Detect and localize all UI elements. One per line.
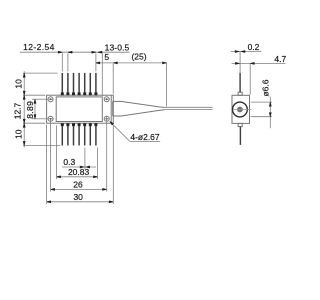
pin 7 (top row) <box>94 73 97 95</box>
left dimension line 10/12.7/10 <box>23 71 25 147</box>
pin 10 (bottom row) <box>72 123 75 145</box>
dimension 20.83 line <box>57 176 98 178</box>
side view bottom lead <box>239 127 241 145</box>
arrows left column <box>23 73 25 77</box>
extension line hole right <box>106 116 108 191</box>
dimension 4.7 line <box>232 62 286 64</box>
extension line flange left <box>46 125 48 204</box>
dimension 30 line <box>47 201 114 203</box>
extension line pin2 <box>67 53 69 71</box>
extension line flange right bottom <box>112 125 114 204</box>
pin 1 (top row) <box>61 73 64 95</box>
side view body <box>232 95 250 123</box>
mounting hole bottom-right <box>104 116 109 121</box>
dimension 26 line <box>51 188 107 190</box>
svg-text:(25): (25) <box>131 52 146 62</box>
svg-text:30: 30 <box>73 192 83 202</box>
dimension line top row <box>20 51 130 53</box>
svg-text:4-ø2.67: 4-ø2.67 <box>130 132 160 142</box>
extension line pin1 <box>61 53 63 71</box>
pin 9 (bottom row) <box>66 123 69 145</box>
extension line circle top <box>251 101 272 103</box>
extension line flange right edge <box>112 64 114 94</box>
arrows top row <box>58 51 62 53</box>
side view ferrule circle <box>233 102 248 117</box>
flange inner right edge <box>110 96 112 124</box>
extension line body right edge <box>101 53 103 96</box>
leader line <box>111 122 130 141</box>
dimension line second row <box>96 62 167 64</box>
optical fiber pigtail <box>165 107 213 109</box>
extension line fiber tip <box>166 63 168 107</box>
fiber boot cone <box>113 101 165 116</box>
pin 5 (top row) <box>83 73 86 95</box>
svg-text:4.7: 4.7 <box>274 54 286 64</box>
svg-text:5: 5 <box>104 52 109 62</box>
package body (lid, top view) <box>56 97 102 122</box>
side view top tab <box>238 92 242 95</box>
dimension 0.2 line <box>231 51 262 53</box>
svg-text:20.83: 20.83 <box>68 167 90 177</box>
svg-text:12-2.54: 12-2.54 <box>23 42 55 52</box>
svg-text:0.2: 0.2 <box>248 42 260 52</box>
extension line package right (side view) <box>249 64 251 95</box>
pin 11 (bottom row) <box>78 123 81 145</box>
svg-text:12.7: 12.7 <box>13 102 23 119</box>
pin 13 (bottom row) <box>89 123 92 145</box>
flange (butterfly package base, top view) <box>47 95 114 123</box>
extension line body left edge <box>56 125 58 179</box>
dimension 8.89 line <box>34 99 36 119</box>
svg-text:10: 10 <box>14 129 24 139</box>
pin 14 (bottom row) <box>94 123 97 145</box>
extension line circle bottom <box>251 116 272 118</box>
pin 6 (top row) <box>89 73 92 95</box>
dimension 0.3 line <box>62 166 96 168</box>
svg-text:26: 26 <box>73 179 83 189</box>
left extension line flange top <box>23 94 45 96</box>
side view ferrule center dot <box>237 107 243 113</box>
extension line pin7 <box>95 53 97 71</box>
pin 2 (top row) <box>66 73 69 95</box>
left extension line hole center top <box>32 98 48 100</box>
mounting hole bottom-left <box>48 116 53 121</box>
left extension line pin tops <box>23 72 58 74</box>
pin 8 (bottom row) <box>61 123 64 145</box>
side view centerlines <box>233 109 251 111</box>
pin 4 (top row) <box>78 73 81 95</box>
top pin row (7 leads) <box>61 73 98 95</box>
arrows second row <box>96 62 100 64</box>
svg-text:8.89: 8.89 <box>25 101 35 119</box>
leader arrowhead <box>110 121 114 125</box>
left extension line pin bottoms <box>23 145 60 147</box>
dimension Ø6.6 line <box>269 97 271 129</box>
side view top lead <box>239 52 241 93</box>
mounting hole top-left <box>48 97 53 102</box>
svg-text:0.3: 0.3 <box>63 157 75 167</box>
svg-text:ø6.6: ø6.6 <box>261 79 271 96</box>
left extension line flange bottom <box>23 122 45 124</box>
extension line pin5 bottom <box>84 148 86 170</box>
side view bottom tab <box>238 123 242 126</box>
left extension line hole center bottom <box>32 118 48 120</box>
bottom pin row (7 leads) <box>61 123 98 145</box>
extension line pin7 bottom <box>97 148 99 179</box>
pin 3 (top row) <box>72 73 75 95</box>
leader underline <box>130 140 160 142</box>
extension line hole left <box>50 119 52 192</box>
svg-text:10: 10 <box>14 79 24 89</box>
pin 12 (bottom row) <box>83 123 86 145</box>
mounting hole top-right <box>104 97 109 102</box>
